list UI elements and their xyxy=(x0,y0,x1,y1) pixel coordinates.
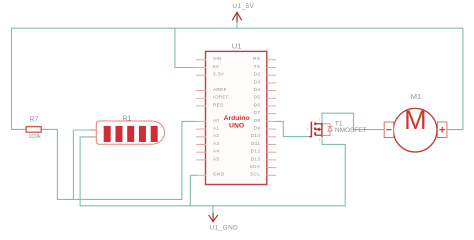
svg-text:SCL: SCL xyxy=(250,172,260,178)
svg-text:D8: D8 xyxy=(254,118,261,124)
tap vertical xyxy=(321,124,323,136)
svg-text:3.3V: 3.3V xyxy=(213,72,225,78)
svg-text:1: 1 xyxy=(307,127,309,131)
U1 right pin stubs xyxy=(267,60,276,176)
svg-text:GND: GND xyxy=(213,172,225,178)
wire 5V branch to 5V pin xyxy=(175,28,197,67)
wire GND pin to gnd rail xyxy=(190,175,196,206)
svg-text:A5: A5 xyxy=(213,156,219,162)
svg-text:D6: D6 xyxy=(254,102,261,108)
wire R1 bottom lead to gnd rail xyxy=(80,137,91,206)
U1 left pin stubs xyxy=(197,60,206,176)
svg-text:R1: R1 xyxy=(122,116,131,123)
svg-text:VIN: VIN xyxy=(213,56,222,62)
U1 left pin labels xyxy=(213,56,229,178)
body diode xyxy=(322,124,332,136)
svg-text:UNO: UNO xyxy=(229,122,244,129)
svg-text:D7: D7 xyxy=(254,110,261,116)
svg-text:SDA: SDA xyxy=(250,164,261,170)
svg-text:A1: A1 xyxy=(213,126,219,132)
svg-text:A0: A0 xyxy=(213,118,219,124)
resistor R7 xyxy=(22,127,48,133)
svg-text:U1: U1 xyxy=(232,41,242,50)
wire U1_5V arrow stem xyxy=(236,15,238,28)
svg-text:D3: D3 xyxy=(254,79,261,85)
svg-text:D10: D10 xyxy=(251,133,261,139)
svg-text:A2: A2 xyxy=(213,133,219,139)
svg-text:M: M xyxy=(404,105,427,135)
svg-text:A3: A3 xyxy=(213,141,219,147)
svg-text:R7: R7 xyxy=(29,116,38,123)
bottom tap xyxy=(316,134,322,136)
svg-text:100k: 100k xyxy=(28,134,41,140)
svg-text:M1: M1 xyxy=(411,92,421,101)
svg-text:Arduino: Arduino xyxy=(224,115,250,122)
top tap xyxy=(316,123,322,125)
svg-text:TX: TX xyxy=(254,64,261,70)
svg-text:IOREF: IOREF xyxy=(213,95,229,101)
U1 right pin labels xyxy=(250,56,261,178)
svg-text:U1_5V: U1_5V xyxy=(232,3,254,10)
gate bar xyxy=(310,122,311,136)
wire U1_GND arrow stem xyxy=(212,206,214,215)
channel dashes xyxy=(314,122,316,125)
svg-text:D5: D5 xyxy=(254,95,261,101)
svg-text:U1_GND: U1_GND xyxy=(210,224,239,231)
wire node A0 rail xyxy=(57,198,181,200)
motor minus terminal xyxy=(384,122,393,138)
photoresistor R1 xyxy=(91,121,165,144)
svg-text:AREF: AREF xyxy=(213,87,227,93)
svg-text:D9: D9 xyxy=(254,126,261,132)
svg-text:D2: D2 xyxy=(254,72,261,78)
op-amp U1 arduino body xyxy=(206,51,267,184)
wire top 5V rail xyxy=(12,27,463,29)
svg-text:5V: 5V xyxy=(213,64,220,70)
wire D8 pin to T1 gate xyxy=(276,121,310,136)
svg-text:RX: RX xyxy=(253,56,261,62)
svg-text:3: 3 xyxy=(318,138,320,142)
wire T1 drain to motor minus xyxy=(322,113,378,129)
svg-text:NMOSFET: NMOSFET xyxy=(335,127,367,134)
junction dots xyxy=(321,123,323,125)
svg-text:RES: RES xyxy=(213,102,224,108)
svg-text:D13: D13 xyxy=(251,156,261,162)
wire R1 top lead to node rail xyxy=(73,130,91,199)
wire motor plus to right drop xyxy=(451,28,463,129)
motor plus terminal xyxy=(438,122,447,138)
wire node rail riser to A0 pin xyxy=(182,121,197,199)
svg-text:2: 2 xyxy=(318,118,320,122)
power symbol U1_GND arrow xyxy=(209,214,218,222)
svg-text:D11: D11 xyxy=(251,141,260,147)
wire left drop to R7 xyxy=(12,28,22,129)
transistor T1 nmosfet xyxy=(310,122,332,136)
wire GND rail xyxy=(80,205,345,207)
wire T1 source to gnd rail xyxy=(322,136,345,206)
motor M1 xyxy=(378,105,452,152)
body arrow xyxy=(316,128,322,130)
power symbol U1_5V arrow xyxy=(233,12,242,21)
svg-text:A4: A4 xyxy=(213,149,219,155)
wire R7 right to node rail xyxy=(47,129,57,199)
svg-text:D12: D12 xyxy=(251,149,261,155)
svg-text:D4: D4 xyxy=(254,87,261,93)
